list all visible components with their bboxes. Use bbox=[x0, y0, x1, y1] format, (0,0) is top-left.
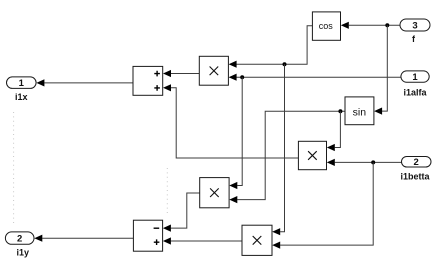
svg-text:sin: sin bbox=[353, 106, 367, 118]
wire multiplier A output to sum1 upper input bbox=[163, 70, 199, 77]
svg-text:2: 2 bbox=[17, 233, 22, 244]
multiplier A bbox=[199, 56, 228, 85]
wire sum2 output to outport i1y bbox=[34, 235, 133, 242]
wire sum1 output to outport i1x bbox=[36, 79, 133, 86]
sum block S1 bbox=[133, 66, 163, 95]
wire multiplier B output to sum1 lower input bbox=[163, 84, 298, 158]
multiplier D bbox=[242, 225, 272, 255]
wire cos branch down to multiplier D upper input bbox=[272, 64, 284, 235]
outport 1 oval bbox=[7, 77, 37, 89]
svg-text:i1x: i1x bbox=[15, 92, 28, 102]
wire i1betta branch down to multiplier D lower input bbox=[272, 162, 373, 248]
junction on f wire bbox=[385, 23, 389, 27]
inport 1 oval bbox=[401, 71, 429, 83]
junction on cos output wire bbox=[283, 62, 287, 66]
wire f branch down to sin bbox=[374, 25, 387, 114]
cos block bbox=[312, 12, 340, 40]
outport 2 oval bbox=[5, 232, 34, 245]
multiplier B bbox=[298, 141, 326, 169]
wire sin output to multiplier C lower input bbox=[229, 111, 345, 203]
wire inport i1alfa to multiplier A lower input bbox=[229, 74, 401, 81]
svg-text:2: 2 bbox=[414, 157, 419, 168]
wire i1alfa branch down to multiplier C upper input bbox=[229, 77, 242, 189]
inport 3 oval bbox=[400, 19, 430, 31]
junction on i1alfa wire bbox=[240, 75, 244, 79]
svg-text:i1alfa: i1alfa bbox=[403, 87, 427, 97]
svg-text:3: 3 bbox=[412, 20, 417, 31]
dotted page boundary line left bbox=[13, 112, 15, 224]
sum block S2 bbox=[133, 220, 162, 251]
inport 2 oval bbox=[402, 157, 432, 169]
wire inport f to cos block bbox=[341, 22, 400, 29]
svg-text:1: 1 bbox=[19, 78, 25, 89]
junction on sin output wire bbox=[338, 109, 342, 113]
wire cos output to multiplier A upper input bbox=[229, 26, 313, 68]
wire sin branch down to multiplier B upper input bbox=[327, 111, 341, 151]
svg-text:1: 1 bbox=[412, 72, 418, 83]
wire inport i1betta to multiplier B lower input bbox=[327, 159, 402, 166]
wire multiplier D output to sum2 plus input bbox=[163, 237, 242, 244]
svg-text:f: f bbox=[412, 34, 416, 44]
svg-text:cos: cos bbox=[319, 21, 334, 31]
svg-text:i1y: i1y bbox=[16, 248, 29, 258]
svg-text:i1betta: i1betta bbox=[400, 171, 430, 181]
sin block bbox=[345, 97, 374, 125]
dotted page boundary line middle bbox=[166, 168, 168, 213]
wire multiplier C output to sum2 minus input bbox=[163, 193, 200, 232]
multiplier C bbox=[200, 178, 229, 208]
junction on i1betta wire bbox=[371, 160, 375, 164]
